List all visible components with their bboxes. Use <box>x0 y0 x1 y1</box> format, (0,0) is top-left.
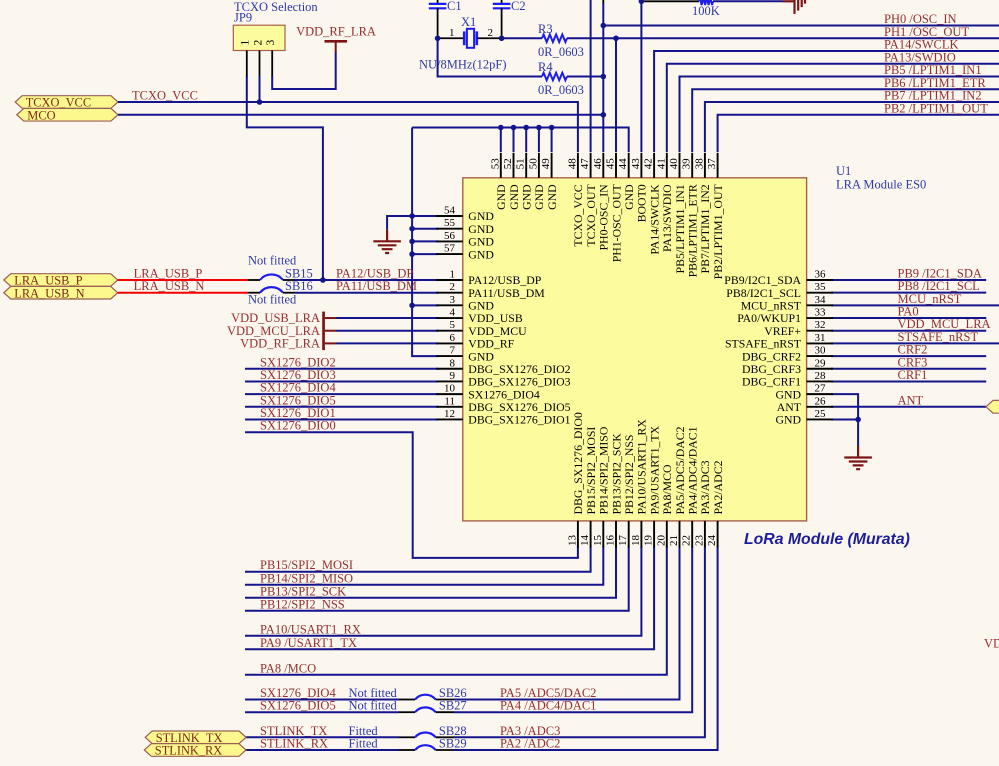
svg-text:39: 39 <box>681 158 693 170</box>
svg-text:LRA_USB_N: LRA_USB_N <box>14 286 84 300</box>
pin numbers top side U1 <box>489 158 718 170</box>
designator U1 text <box>836 164 926 191</box>
resistor R4 <box>438 38 604 97</box>
wire PB14/SPI2_MISO to pin15 <box>245 546 603 584</box>
wire PA11/USB_DM <box>295 292 438 294</box>
port LRA_USB_N flag <box>4 286 118 299</box>
svg-text:29: 29 <box>815 357 827 369</box>
junction GND bus x526.2 <box>523 125 529 131</box>
pin stubs left side U1 <box>436 216 463 419</box>
svg-text:25: 25 <box>815 408 827 420</box>
svg-text:PB14/SPI2_MISO: PB14/SPI2_MISO <box>260 571 353 585</box>
wire PB8 /I2C1_SCL <box>831 292 986 294</box>
svg-text:10: 10 <box>444 383 456 395</box>
svg-text:1: 1 <box>449 27 455 39</box>
svg-text:23: 23 <box>693 535 705 547</box>
ground GND3 right <box>844 446 872 469</box>
svg-text:PA8 /MCO: PA8 /MCO <box>260 661 316 675</box>
wire PA3 /ADC3 to pin23 <box>454 546 705 737</box>
wire LRA_USB_N red <box>118 292 248 294</box>
svg-text:CRF1: CRF1 <box>898 368 928 382</box>
svg-text:40: 40 <box>668 158 680 170</box>
pin numbers bottom side U1 <box>566 535 718 547</box>
pin numbers left side U1 <box>444 205 456 420</box>
wire PA0 <box>831 317 986 319</box>
svg-text:STLINK_RX: STLINK_RX <box>155 744 223 758</box>
svg-text:SB29: SB29 <box>439 737 467 751</box>
svg-text:42: 42 <box>643 158 655 169</box>
svg-text:Not fitted: Not fitted <box>349 699 398 713</box>
wire BOOT0 vertical <box>640 0 642 152</box>
svg-text:0R_0603: 0R_0603 <box>538 83 584 97</box>
junction C1 / X1 pin1 <box>435 35 441 41</box>
resistor R3 <box>502 22 616 59</box>
svg-text:PA4 /ADC4/DAC1: PA4 /ADC4/DAC1 <box>500 699 596 713</box>
wire GND pin27 down <box>831 394 858 446</box>
port TCXO_VCC flag <box>15 96 118 109</box>
ground GND2 left <box>373 230 401 253</box>
wire PA10/USART1_RX to pin18 <box>245 546 641 635</box>
svg-text:44: 44 <box>617 158 629 170</box>
wire PB2 /LPTIM1_OUT <box>718 115 999 152</box>
wire PB7 /LPTIM1_IN2 <box>705 102 999 152</box>
wire PH0-OSC_IN vertical <box>602 0 604 152</box>
wire MCU_nRST <box>831 304 999 306</box>
junction MCO / PH0-OSC_IN <box>601 112 607 118</box>
wire GND pin drop x551.6 <box>551 128 553 153</box>
svg-text:47: 47 <box>579 158 591 170</box>
junction BOOT0 / 100K <box>639 0 645 4</box>
wire CRF3 <box>831 368 986 370</box>
crystal X1 <box>419 15 507 71</box>
wire JP9 pin2 to TCXO_VCC <box>259 76 261 102</box>
wire JP9 pin1 to PA12/USB_DP <box>247 76 323 280</box>
wire SX1276_DIO5 <box>245 406 438 408</box>
svg-text:3: 3 <box>450 294 456 306</box>
svg-text:33: 33 <box>815 307 827 319</box>
solder bridge SB26 <box>399 686 467 700</box>
svg-text:MCO: MCO <box>27 108 55 122</box>
junction GND right <box>855 417 861 423</box>
solder bridge SB16 <box>248 279 313 293</box>
svg-text:22: 22 <box>681 535 693 546</box>
svg-text:SB16: SB16 <box>285 279 313 293</box>
power port VDD_USB_LRA <box>231 311 336 350</box>
wire PA2 /ADC2 to pin24 <box>454 546 718 750</box>
wire PA12/USB_DP <box>295 279 438 281</box>
svg-text:Fitted: Fitted <box>349 737 379 751</box>
wire SX1276_DIO0 to pin13 <box>245 432 578 558</box>
solder bridge SB15 <box>248 267 313 281</box>
wire STSAFE_nRST <box>831 342 999 344</box>
svg-text:VDD_RF_LRA: VDD_RF_LRA <box>296 25 376 39</box>
wire VDD_MCU_LRA <box>831 330 986 332</box>
wire PB9 /I2C1_SDA <box>831 279 986 281</box>
svg-text:PB13/SPI2_SCK: PB13/SPI2_SCK <box>260 584 346 598</box>
svg-text:PB12/SPI2_NSS: PB12/SPI2_NSS <box>260 597 345 611</box>
svg-text:PB15/SPI2_MOSI: PB15/SPI2_MOSI <box>260 558 353 572</box>
port LRA_USB_P flag <box>4 274 118 287</box>
svg-text:37: 37 <box>706 158 718 170</box>
svg-text:DBG_SX1276_DIO1: DBG_SX1276_DIO1 <box>468 413 570 427</box>
svg-text:48: 48 <box>566 158 578 170</box>
svg-text:15: 15 <box>592 535 604 547</box>
svg-text:27: 27 <box>815 383 827 395</box>
pin names bottom side U1 <box>571 412 725 514</box>
junction GND left pin 54 <box>409 213 415 219</box>
pin stubs top side U1 <box>501 153 718 178</box>
svg-text:3: 3 <box>265 40 277 46</box>
wire PA14/SWCLK <box>654 51 999 152</box>
wire LRA_USB_P red <box>118 279 248 281</box>
capacitor C2 <box>493 0 526 38</box>
wire TCXO_OUT vertical <box>590 0 592 152</box>
wire SX1276_DIO4 <box>245 393 438 395</box>
svg-text:6: 6 <box>450 332 456 344</box>
port STLINK_TX flag <box>145 731 246 744</box>
svg-text:11: 11 <box>444 395 455 407</box>
pin stubs bottom side U1 <box>578 521 718 548</box>
svg-text:NU/8MHz(12pF): NU/8MHz(12pF) <box>419 57 507 71</box>
svg-text:PA2/ADC2: PA2/ADC2 <box>711 460 725 514</box>
wire GND stub pin 57 <box>412 253 438 255</box>
solder bridge SB28 <box>399 724 467 738</box>
svg-text:U1: U1 <box>836 164 851 178</box>
svg-text:PB2/LPTIM1_OUT: PB2/LPTIM1_OUT <box>711 184 725 280</box>
svg-text:1: 1 <box>240 40 252 46</box>
svg-text:30: 30 <box>815 345 827 357</box>
svg-text:14: 14 <box>579 535 591 547</box>
svg-text:0R_0603: 0R_0603 <box>538 45 584 59</box>
svg-text:34: 34 <box>815 294 827 306</box>
junction R4 / PH0-OSC_IN <box>601 74 607 80</box>
junction R3 / PH1-OSC_OUT <box>613 35 619 41</box>
svg-text:SX1276_DIO5: SX1276_DIO5 <box>260 699 336 713</box>
svg-text:5: 5 <box>450 319 456 331</box>
junction GND bus x500.8 <box>498 125 504 131</box>
wire PH1 /OSC_OUT line <box>616 37 999 39</box>
wire GND pin drop x538.9 <box>538 128 540 153</box>
wire PH0 /OSC_IN line <box>603 25 999 27</box>
pin numbers right side U1 <box>815 269 827 420</box>
pin names right side U1 <box>724 273 801 426</box>
svg-text:PA2 /ADC2: PA2 /ADC2 <box>500 737 560 751</box>
svg-text:50: 50 <box>527 158 539 170</box>
svg-text:JP9: JP9 <box>234 11 252 25</box>
ground GND1 rotated at top <box>783 0 805 14</box>
wire ground tap left <box>387 216 412 230</box>
svg-text:TCXO_VCC: TCXO_VCC <box>132 88 198 102</box>
svg-text:16: 16 <box>605 535 617 547</box>
svg-text:17: 17 <box>617 535 629 547</box>
svg-text:36: 36 <box>815 269 827 281</box>
svg-text:STLINK_RX: STLINK_RX <box>260 737 328 751</box>
wire MCO to pin46 <box>118 114 603 116</box>
wire SX1276_DIO5 left segment <box>245 711 399 713</box>
svg-text:2: 2 <box>488 27 494 39</box>
junction JP9 pin2 / TCXO_VCC <box>257 99 263 105</box>
pin names top side U1 <box>494 184 725 280</box>
svg-text:SB27: SB27 <box>439 699 467 713</box>
power port VDD_RF_LRA <box>296 25 376 53</box>
wire GND pin drop x526.2 <box>525 128 527 153</box>
svg-text:2: 2 <box>252 40 264 46</box>
svg-text:13: 13 <box>566 535 578 547</box>
wire VDD_RF to pin6 <box>336 342 438 344</box>
svg-text:PA10/USART1_RX: PA10/USART1_RX <box>260 622 361 636</box>
svg-text:57: 57 <box>444 243 456 255</box>
wire CRF2 <box>831 355 986 357</box>
junction GND left pin 57 <box>409 251 415 257</box>
svg-text:32: 32 <box>815 319 826 331</box>
junction GND bus x538.9 <box>536 125 542 131</box>
port MCO flag <box>17 108 118 121</box>
svg-text:8: 8 <box>450 357 456 369</box>
wire SX1276_DIO3 <box>245 380 438 382</box>
capacitor C1 <box>429 0 462 38</box>
wire VDD_USB to pin4 <box>336 317 438 319</box>
svg-text:GND: GND <box>775 413 801 427</box>
svg-text:100K: 100K <box>692 4 720 18</box>
svg-text:49: 49 <box>540 158 552 170</box>
wire GND bus left pins 54-57,3,7 <box>412 128 438 357</box>
svg-text:26: 26 <box>815 395 827 407</box>
svg-text:20: 20 <box>655 535 667 547</box>
svg-text:VDD_RF_LRA: VDD_RF_LRA <box>240 337 320 351</box>
solder bridge SB29 <box>399 737 467 751</box>
wire TCXO_VCC to pin48 <box>118 102 578 152</box>
svg-text:9: 9 <box>450 370 456 382</box>
wire PA8 /MCO to pin20 <box>245 546 667 674</box>
wire SX1276_DIO1 <box>245 418 438 420</box>
svg-text:1: 1 <box>450 269 456 281</box>
svg-text:2: 2 <box>450 281 456 293</box>
wire PB13/SPI2_SCK to pin16 <box>245 546 616 597</box>
svg-text:LoRa Module (Murata): LoRa Module (Murata) <box>744 531 910 548</box>
port STLINK_RX flag <box>144 744 246 757</box>
wire GND stub pin 3 <box>412 304 438 306</box>
wire VDD_MCU to pin5 <box>336 330 438 332</box>
wire PA13/SWDIO <box>667 64 999 152</box>
svg-text:7: 7 <box>450 345 456 357</box>
wire GND pin drop x500.8 <box>500 128 502 153</box>
wire PA9 /USART1_TX to pin19 <box>245 546 654 649</box>
power port VDD_RF_LRA side <box>240 337 336 351</box>
wire PA4 /ADC4/DAC1 to pin22 <box>454 546 692 712</box>
svg-text:PA9 /USART1_TX: PA9 /USART1_TX <box>260 636 357 650</box>
junction JP9 pin1 / USB_DP <box>320 277 326 283</box>
wire GND stub pin 54 <box>412 215 438 217</box>
wire GND pin drop x513.5 <box>513 128 515 153</box>
wire PB5 /LPTIM1_IN1 <box>680 77 999 153</box>
wire GND stub pin 56 <box>412 240 438 242</box>
svg-text:GND: GND <box>468 247 494 261</box>
connector JP9 TCXO Selection <box>233 0 318 77</box>
svg-text:43: 43 <box>630 158 642 170</box>
wire CRF1 <box>831 380 986 382</box>
junction C2 / X1 pin2 <box>499 35 505 41</box>
wire JP9 pin3 to VDD_RF_LRA <box>272 52 336 90</box>
port ANT flag right edge <box>986 400 999 413</box>
wire PB15/SPI2_MOSI to pin14 <box>245 546 591 571</box>
svg-text:LRA_USB_N: LRA_USB_N <box>134 279 205 293</box>
wire GND bus top pins 53-49 to 44 <box>412 128 629 153</box>
svg-text:19: 19 <box>643 535 655 547</box>
wire SX1276_DIO2 <box>245 368 438 370</box>
svg-text:4: 4 <box>450 307 456 319</box>
svg-text:Not fitted: Not fitted <box>248 293 297 307</box>
svg-text:LRA Module ES0: LRA Module ES0 <box>836 177 926 191</box>
wire PB6 /LPTIM1_ETR <box>692 89 999 152</box>
junction GND left pin 55 <box>409 226 415 232</box>
svg-text:18: 18 <box>630 535 642 547</box>
svg-text:21: 21 <box>668 535 680 546</box>
svg-text:28: 28 <box>815 370 827 382</box>
svg-text:52: 52 <box>502 158 514 169</box>
junction GND bus x513.5 <box>511 125 517 131</box>
wire GND pin25 <box>831 418 858 420</box>
svg-text:54: 54 <box>444 205 456 217</box>
svg-text:53: 53 <box>489 158 501 170</box>
svg-text:45: 45 <box>605 158 617 170</box>
op-amp U1 LRA Module body <box>463 178 807 521</box>
wire GND stub pin 55 <box>412 228 438 230</box>
svg-text:46: 46 <box>592 158 604 170</box>
svg-text:35: 35 <box>815 281 827 293</box>
wire ANT <box>831 406 986 408</box>
svg-text:12: 12 <box>444 408 455 420</box>
svg-text:31: 31 <box>815 332 826 344</box>
svg-text:PB2 /LPTIM1_OUT: PB2 /LPTIM1_OUT <box>884 101 988 115</box>
wire PH1-OSC_OUT vertical <box>615 38 617 152</box>
svg-text:VDD: VDD <box>984 637 999 651</box>
wire PA5 /ADC5/DAC2 to pin21 <box>454 546 680 699</box>
svg-text:55: 55 <box>444 217 456 229</box>
svg-text:SX1276_DIO0: SX1276_DIO0 <box>260 419 336 433</box>
pin names left side U1 <box>468 209 570 426</box>
svg-text:56: 56 <box>444 230 456 242</box>
resistor R5 100K BOOT0 <box>641 0 783 18</box>
pin stubs right side U1 <box>807 280 834 419</box>
svg-text:41: 41 <box>655 158 667 169</box>
wire STLINK_TX left segment <box>245 736 399 738</box>
svg-text:GND: GND <box>545 184 559 210</box>
junction PH0 line <box>601 23 607 29</box>
svg-text:24: 24 <box>706 535 718 547</box>
svg-text:38: 38 <box>693 158 705 170</box>
junction GND left pin 3 <box>409 303 415 309</box>
junction GND bus x551.6 <box>549 125 555 131</box>
svg-text:PA11/USB_DM: PA11/USB_DM <box>336 279 417 293</box>
svg-text:Not fitted: Not fitted <box>248 254 297 268</box>
solder bridge SB27 <box>399 699 467 713</box>
svg-text:X1: X1 <box>461 15 476 29</box>
svg-text:C1: C1 <box>447 0 462 13</box>
svg-text:R4: R4 <box>538 60 553 74</box>
junction GND left pin 56 <box>409 239 415 245</box>
power port VDD_MCU_LRA <box>227 324 336 338</box>
wire PB12/SPI2_NSS to pin17 <box>245 546 629 610</box>
svg-text:C2: C2 <box>511 0 526 13</box>
svg-text:ANT: ANT <box>898 393 924 407</box>
svg-text:51: 51 <box>515 158 527 169</box>
wire STLINK_RX left segment <box>245 749 399 751</box>
wire SX1276_DIO4 left segment <box>245 699 399 701</box>
